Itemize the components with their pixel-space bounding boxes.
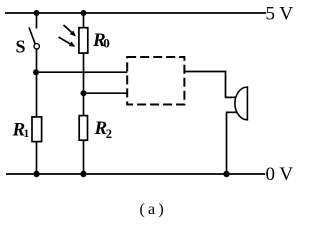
svg-text:0: 0 (103, 35, 110, 50)
svg-text:1: 1 (24, 128, 30, 140)
svg-text:2: 2 (106, 127, 112, 141)
svg-text:S: S (16, 37, 26, 57)
svg-text:(a): (a) (140, 201, 167, 218)
svg-text:5 V: 5 V (266, 3, 294, 24)
svg-text:0 V: 0 V (266, 164, 294, 185)
